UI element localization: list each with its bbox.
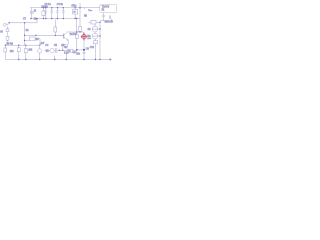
wire mid column <box>24 23 26 45</box>
svg-text:100n 25: 100n 25 <box>105 21 114 23</box>
wire ground rail of cap bank <box>31 18 80 20</box>
svg-text:10u: 10u <box>76 53 81 55</box>
svg-text:R5 R6: R5 R6 <box>6 44 13 46</box>
wire ground bus <box>5 59 110 61</box>
terminal cross <box>109 58 111 60</box>
svg-text:47: 47 <box>73 12 76 14</box>
svg-text:Vcc: Vcc <box>88 10 93 12</box>
LED D2 <box>92 33 98 39</box>
resistor R8 <box>89 21 92 23</box>
resistor R7b <box>25 45 27 48</box>
IC U1 note box <box>100 5 117 13</box>
svg-text:C4 1u: C4 1u <box>57 4 64 6</box>
resistor R7 vertical <box>79 27 82 32</box>
resistor R11 column <box>76 32 78 34</box>
wire under box <box>100 19 112 21</box>
node collector <box>79 31 80 32</box>
connector J2 power jack <box>31 8 33 11</box>
wire to diamond column <box>77 49 84 51</box>
resistor R6 <box>18 45 20 48</box>
wire gnd drop <box>65 52 67 59</box>
node input net <box>9 22 10 23</box>
svg-text:1M: 1M <box>35 39 38 41</box>
svg-text:C12: C12 <box>90 47 95 49</box>
LED D3 red diamond <box>81 33 87 41</box>
wire bottom mid net <box>44 49 50 51</box>
wire diamond to gnd <box>83 39 85 52</box>
svg-text:52: 52 <box>102 9 105 12</box>
node led column <box>99 22 100 23</box>
node mid net <box>62 50 63 51</box>
node base net <box>24 35 25 36</box>
junction dots <box>5 7 101 60</box>
resistor R10 <box>68 49 73 52</box>
capacitor C3 <box>51 8 54 19</box>
svg-text:25V: 25V <box>73 52 77 54</box>
svg-text:0.22: 0.22 <box>64 52 69 54</box>
wire low rail left <box>5 44 40 46</box>
meter M1 <box>50 48 54 52</box>
node tick <box>84 8 86 10</box>
input connector J1 <box>3 23 6 26</box>
svg-text:IN: IN <box>0 32 3 34</box>
resistor R4 horizontal <box>25 39 30 41</box>
wire collector net <box>66 30 83 33</box>
capacitor C5 <box>62 8 65 19</box>
wire to diamond <box>83 32 85 34</box>
svg-text:Q2: Q2 <box>46 50 50 52</box>
capacitor C8 right <box>109 16 111 20</box>
svg-text:1000u: 1000u <box>41 6 48 8</box>
wire top rail +V <box>30 7 80 9</box>
wire emitter path <box>63 40 68 50</box>
wire input net <box>8 22 37 24</box>
node bus dots <box>18 59 19 60</box>
node rail dots <box>43 7 44 8</box>
svg-text:470u: 470u <box>71 5 77 7</box>
capacitor C2 <box>45 8 48 19</box>
svg-text:4k7: 4k7 <box>64 47 68 49</box>
svg-text:C5: C5 <box>54 45 58 47</box>
wire drop from gnd rail <box>36 19 38 23</box>
node gnd rail dots <box>30 18 31 19</box>
svg-text:2k2: 2k2 <box>10 51 14 53</box>
capacitor C12 <box>95 39 97 41</box>
svg-text:R8: R8 <box>84 16 88 18</box>
capacitor C1 electrolytic box <box>42 8 44 11</box>
LED D1 <box>94 24 96 26</box>
resistor R5 <box>4 45 6 48</box>
resistor R2 column <box>7 27 9 29</box>
svg-text:10k: 10k <box>28 49 33 51</box>
wire cap gnd <box>54 56 56 60</box>
capacitor C11 polarized <box>83 52 86 53</box>
transistor Q1 <box>55 34 63 36</box>
svg-text:C7: C7 <box>23 19 27 21</box>
capacitor C4 <box>56 8 59 19</box>
svg-text:R2: R2 <box>26 30 30 32</box>
svg-text:red: red <box>87 37 91 40</box>
capacitor C10 <box>55 48 67 53</box>
wire +V to IC box <box>80 7 100 9</box>
resistor R3 on column <box>54 20 56 28</box>
capacitor C7 under box <box>102 13 105 21</box>
wire right column <box>99 22 101 59</box>
svg-text:J2: J2 <box>34 10 37 12</box>
node low rail <box>5 45 6 46</box>
svg-text:C4: C4 <box>45 45 49 47</box>
capacitor C6 electrolytic box <box>74 8 76 10</box>
wire base net <box>25 34 64 36</box>
wire right drop <box>79 3 81 27</box>
transistor Q2 lamp <box>39 45 41 49</box>
svg-text:D1: D1 <box>88 29 92 31</box>
capacitor C8b <box>6 36 9 40</box>
